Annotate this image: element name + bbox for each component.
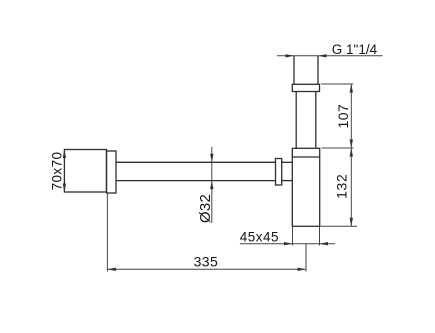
extension line collar down <box>106 193 108 272</box>
trap body 45x45 <box>292 148 319 226</box>
leader body centerline down <box>305 244 307 272</box>
flange collar <box>107 151 117 193</box>
arrow 335 right <box>298 268 307 271</box>
horizontal pipe (tailpipe Ø32) <box>116 162 276 180</box>
dimension line diameter 32 <box>211 147 213 223</box>
arrow 132 top <box>350 148 353 157</box>
inlet nut at trap body <box>276 159 282 186</box>
extension line sleeve top <box>321 83 353 85</box>
arrow 107 top <box>350 84 353 93</box>
arrow 107 bottom <box>350 140 353 149</box>
svg-text:45x45: 45x45 <box>240 229 279 244</box>
extension line body top <box>322 147 354 149</box>
extension line body left down <box>292 226 294 245</box>
svg-text:G 1"1/4: G 1"1/4 <box>332 42 378 57</box>
arrow 70x70 bottom <box>63 184 66 193</box>
svg-text:132: 132 <box>334 173 350 198</box>
extension line body right down <box>319 226 321 245</box>
top nut / sleeve <box>292 84 319 91</box>
arrow 45x45 left <box>284 242 293 245</box>
svg-text:70x70: 70x70 <box>49 152 64 191</box>
arrow 45x45 right <box>320 242 329 245</box>
arrow 335 left <box>107 268 116 271</box>
dimension line G 1"1/4 <box>277 55 383 57</box>
svg-text:Ø32: Ø32 <box>197 194 214 223</box>
dimension line 335 <box>107 268 306 270</box>
dimension line 45x45 <box>240 243 335 245</box>
extension line body bottom <box>321 225 358 227</box>
svg-text:107: 107 <box>335 104 351 129</box>
body cap line <box>292 156 319 158</box>
wall flange 70x70 <box>64 150 106 193</box>
arrow G right <box>318 54 327 57</box>
arrow diameter32 top <box>210 154 213 163</box>
arrow diameter32 bottom <box>210 181 213 190</box>
short pipe into body <box>282 162 293 180</box>
riser tube <box>296 92 316 149</box>
svg-text:335: 335 <box>194 254 219 270</box>
arrow G left <box>286 54 295 57</box>
dimension line 107/132 <box>350 84 352 226</box>
arrow 70x70 top <box>63 150 66 159</box>
arrow 132 bottom <box>350 218 353 227</box>
threaded stub G 1"1/4 <box>294 56 318 85</box>
